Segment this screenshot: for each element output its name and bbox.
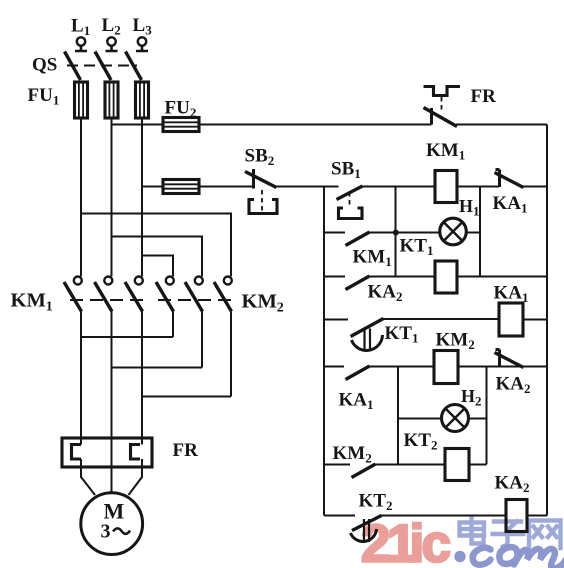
wire pole1 down — [80, 312, 82, 445]
terminal L3 — [136, 37, 148, 51]
wire KM2 aux stub — [324, 464, 350, 466]
wire mid rail upper — [395, 187, 397, 277]
fuse FU1 pole2 — [105, 82, 118, 118]
FR heater element right — [131, 445, 141, 460]
wire branch KM1 aux stub — [324, 232, 345, 234]
wire crossover V — [112, 367, 203, 369]
wire KA1 coil to bus — [523, 319, 547, 321]
wire FU2b to SB2 — [199, 186, 253, 188]
wire control top from L2 — [112, 124, 164, 126]
wire right inner rail upper — [479, 187, 481, 277]
lamp H2 — [442, 405, 469, 432]
wire pole3 down — [141, 312, 143, 445]
wire pole2 down — [111, 312, 113, 439]
thermal relay FR box — [62, 438, 152, 467]
wire rail to SB1 — [324, 186, 339, 188]
wire KM1 aux to dot — [369, 232, 396, 234]
wire crossover U — [81, 336, 173, 338]
coil KT2 — [445, 449, 469, 481]
fuse FU1 pole1 — [75, 82, 88, 118]
motor M — [81, 493, 143, 555]
svg-text:FR: FR — [471, 86, 497, 107]
contact KT1 delayed — [351, 319, 384, 351]
relay contact KA1 NC — [495, 170, 524, 188]
coil KA2 — [506, 500, 527, 532]
wire lamp H2 branch — [398, 418, 441, 420]
wire lamp H1 to inner rail — [467, 232, 480, 234]
wire phase B column — [111, 118, 113, 276]
wire branch KA2 stub — [324, 276, 345, 278]
wire KA1 contact to bus — [523, 186, 547, 188]
svg-text:21ic: 21ic — [361, 515, 451, 568]
coil KM2 — [434, 351, 458, 384]
thermal relay FR contact — [424, 87, 461, 127]
QS linkage dashed — [67, 65, 137, 67]
terminal L1 — [75, 37, 87, 51]
switch QS — [65, 52, 142, 81]
contactor KM1 pole1 — [64, 277, 82, 312]
wire dot to lamp H1 — [396, 232, 442, 234]
contact KA2 NO — [346, 276, 370, 290]
wire L3 to KM2 pole4 — [142, 256, 173, 277]
wire KA2 contact to KT1 coil — [369, 276, 436, 278]
contact KT2 delayed — [351, 516, 382, 543]
wire KT1 contact to KA1 coil — [383, 318, 499, 320]
wire right bus — [546, 125, 548, 516]
wire FU2a to FR contact — [199, 124, 432, 126]
contactor KM2 pole4 — [156, 277, 174, 312]
svg-text:FR: FR — [173, 440, 199, 461]
lamp H1 — [440, 218, 467, 245]
coil KA1 — [499, 303, 523, 336]
contact KM1 aux NO — [346, 232, 370, 246]
wire pole5 down — [201, 312, 203, 368]
wire FR contact to right bus — [456, 124, 547, 126]
wire SB1 to mid rail — [362, 186, 436, 188]
contactor KM1 pole3 — [125, 277, 143, 312]
wire KM2 aux to KT2 coil — [375, 464, 446, 466]
wire KA2 coil to bus — [527, 515, 547, 517]
wire KT1 delayed stub — [324, 319, 348, 321]
wire KA1 contact to KM2 coil — [369, 366, 435, 368]
wire KT2 coil to inner rail — [469, 464, 487, 466]
contactor KM1 pole2 — [95, 277, 113, 312]
svg-text:QS: QS — [32, 55, 57, 76]
wire lamp H2 to inner rail — [469, 418, 487, 420]
pushbutton SB1 — [337, 186, 363, 219]
wire crossover W — [142, 396, 231, 398]
fuse FU2b — [163, 180, 199, 194]
wire pole4 down — [172, 312, 174, 338]
watermark .com — [454, 547, 564, 568]
wire control second from L3 — [142, 186, 163, 188]
wire FR to motor left — [81, 459, 95, 495]
node junction dot — [393, 230, 399, 236]
fuse FU1 pole3 — [136, 82, 149, 118]
wire SB2 to rail — [275, 186, 324, 188]
wire FR to motor right — [129, 459, 143, 495]
coil KT1 — [435, 261, 457, 293]
wire mid rail lower — [397, 367, 399, 465]
wire FR to motor mid — [111, 438, 113, 493]
wire left control rail — [323, 187, 325, 516]
watermark dianziwang — [460, 517, 561, 548]
wire KT1 coil to bus — [457, 276, 547, 278]
contactor linkage dashed — [70, 299, 235, 301]
pushbutton SB2 — [245, 169, 277, 214]
fuse FU2a — [163, 118, 199, 132]
wire right inner rail lower — [486, 367, 488, 465]
wire L2 to KM2 pole5 — [112, 237, 203, 277]
contact KM2 aux NO — [352, 464, 376, 478]
wire phase C column — [141, 118, 143, 276]
terminal L2 — [106, 37, 118, 51]
contactor KM2 pole5 — [185, 277, 203, 312]
wire KM2 coil to KA2 contact — [458, 366, 547, 368]
relay contact KA2 NC — [495, 350, 524, 368]
wire pole6 down — [230, 312, 232, 397]
svg-text:3: 3 — [101, 521, 111, 543]
wire L1 to KM2 pole6 — [81, 214, 231, 277]
contact KA1 NO — [346, 366, 370, 380]
wire KA1 NO stub — [324, 366, 344, 368]
contactor KM2 pole6 — [214, 277, 232, 312]
wire KT2 contact to KA2 coil — [381, 515, 506, 517]
FR heater element left — [72, 445, 82, 460]
coil KM1 — [435, 171, 457, 203]
wire KT2 delayed stub — [324, 515, 355, 517]
wire phase A column — [80, 118, 82, 276]
wire KM1 coil to KA1 contact — [457, 186, 499, 188]
